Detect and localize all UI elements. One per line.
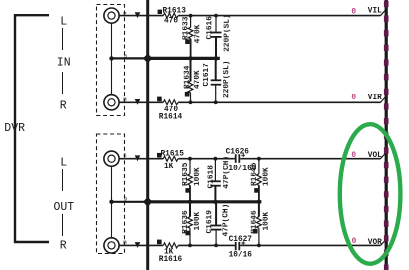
connector group box IN (dashed) xyxy=(97,5,125,116)
connector jack OUT L xyxy=(104,151,119,166)
svg-text:470K: 470K xyxy=(194,70,202,89)
ground bus OUT (y=201.8) xyxy=(112,201,149,203)
capacitor C1616 xyxy=(206,14,231,57)
svg-text:0: 0 xyxy=(352,238,357,246)
svg-text:47P(CH): 47P(CH) xyxy=(223,204,231,237)
svg-text:OUT: OUT xyxy=(54,201,75,214)
junction C1617 tap xyxy=(214,100,218,104)
svg-text:47P(CH): 47P(CH) xyxy=(223,156,231,189)
svg-text:R1616: R1616 xyxy=(159,256,183,264)
resistor R1616 xyxy=(157,240,183,264)
wire DVR bracket xyxy=(15,15,49,242)
capacitor C1619 xyxy=(206,203,230,246)
arrow marker OUT L xyxy=(135,155,141,161)
svg-text:220P(SL): 220P(SL) xyxy=(224,14,232,51)
resistor R1614 xyxy=(157,97,182,122)
junction bus crossing xyxy=(143,54,153,64)
connector group box OUT (dashed) xyxy=(97,134,125,254)
wire label tick xyxy=(62,28,64,50)
junction connector common IN xyxy=(109,56,113,60)
junction C1618 tap xyxy=(214,157,218,161)
svg-text:R1636: R1636 xyxy=(182,210,190,234)
svg-text:C1616: C1616 xyxy=(206,16,214,40)
svg-text:6: 6 xyxy=(123,152,126,159)
junction C1616 tap xyxy=(214,14,218,18)
svg-text:L: L xyxy=(60,15,67,28)
junction bus C1618 xyxy=(213,200,217,204)
svg-text:0: 0 xyxy=(351,152,356,160)
svg-text:10/16: 10/16 xyxy=(229,252,253,260)
capacitor C1618 xyxy=(208,156,232,201)
arrow marker OUT R xyxy=(135,242,141,248)
junction R1633 tap xyxy=(189,14,193,18)
annotation green ellipse xyxy=(340,124,401,264)
wire VOR row (y=245.4) xyxy=(119,244,163,246)
junction connector common OUT xyxy=(109,200,113,204)
wire label tick xyxy=(62,214,64,236)
ground bus IN (y=58.4) xyxy=(112,57,149,59)
svg-text:R1633: R1633 xyxy=(182,16,190,40)
connector jack IN L xyxy=(104,8,119,23)
svg-text:IN: IN xyxy=(57,57,71,70)
svg-text:100K: 100K xyxy=(263,167,271,186)
svg-text:C1619: C1619 xyxy=(206,210,214,234)
svg-text:0: 0 xyxy=(351,94,356,102)
junction bus R1633 xyxy=(188,56,192,60)
svg-text:C1627: C1627 xyxy=(229,236,253,244)
svg-text:5: 5 xyxy=(124,52,127,59)
resistor R1633 xyxy=(182,16,202,58)
capacitor C1627 (electrolytic, series) xyxy=(229,236,253,260)
junction R1635 tap xyxy=(188,157,192,161)
svg-text:L: L xyxy=(60,156,67,169)
resistor R1635 xyxy=(182,159,202,201)
svg-text:M: M xyxy=(123,239,126,246)
capacitor C1617 xyxy=(203,59,231,102)
svg-text:VOL: VOL xyxy=(368,152,382,160)
wire label tick xyxy=(62,72,64,94)
junction R1634 tap xyxy=(189,100,193,104)
junction R1645 tap xyxy=(257,157,261,161)
svg-text:0: 0 xyxy=(351,9,356,17)
svg-text:R1634: R1634 xyxy=(184,65,192,89)
resistor R1636 xyxy=(182,203,202,246)
svg-text:1K: 1K xyxy=(164,163,174,171)
svg-text:9: 9 xyxy=(124,195,127,202)
wire connector common IN xyxy=(111,23,113,95)
svg-text:R1614: R1614 xyxy=(159,114,183,122)
arrow marker IN R xyxy=(135,99,141,105)
resistor R1646 xyxy=(251,203,271,246)
resistor R1645 xyxy=(251,159,271,201)
svg-text:470: 470 xyxy=(164,18,178,26)
svg-text:R1613: R1613 xyxy=(163,8,187,16)
wire connector common OUT xyxy=(111,166,113,238)
svg-text:R: R xyxy=(60,99,67,112)
svg-text:100K: 100K xyxy=(194,211,202,230)
capacitor C1626 (electrolytic, series) xyxy=(226,148,257,173)
svg-text:C1626: C1626 xyxy=(226,148,250,156)
junction bus C1616 xyxy=(214,56,218,60)
svg-text:R: R xyxy=(60,239,67,252)
resistor R1634 xyxy=(184,59,202,102)
svg-text:DVR: DVR xyxy=(4,122,25,135)
svg-text:220P(SL): 220P(SL) xyxy=(223,61,231,98)
svg-text:VIR: VIR xyxy=(368,94,382,102)
wire VIR row (y=102.3) xyxy=(119,101,163,103)
junction bus R1635 xyxy=(188,200,192,204)
resistor R1613 xyxy=(158,8,187,26)
svg-text:R1615: R1615 xyxy=(161,150,185,158)
wire connector strip right xyxy=(385,0,388,270)
arrow marker IN L xyxy=(135,12,141,18)
connector jack OUT R xyxy=(104,238,119,253)
connector jack IN R xyxy=(104,95,119,110)
junction bus crossing xyxy=(143,197,153,207)
svg-text:R1646: R1646 xyxy=(251,210,259,234)
svg-text:C1618: C1618 xyxy=(208,165,216,189)
wire VOL row (y=158.7) xyxy=(119,158,163,160)
svg-text:C1617: C1617 xyxy=(203,63,211,87)
svg-text:M: M xyxy=(123,96,126,103)
wire label tick xyxy=(62,169,64,191)
svg-text:470K: 470K xyxy=(194,24,202,43)
resistor R1615 xyxy=(157,150,184,171)
wire VIL row (y=15.6) xyxy=(119,15,163,17)
junction R1646 tap xyxy=(257,244,261,248)
svg-text:100K: 100K xyxy=(263,211,271,230)
svg-text:R1635: R1635 xyxy=(182,162,190,186)
junction R1636 tap xyxy=(188,244,192,248)
svg-text:VOR: VOR xyxy=(368,239,382,247)
junction C1619 tap xyxy=(214,244,218,248)
connector strip pads (magenta) xyxy=(384,0,389,270)
wire bus vertical left xyxy=(146,0,149,270)
svg-text:R1645: R1645 xyxy=(251,162,259,186)
junction bus R1645 xyxy=(257,200,261,204)
svg-text:100K: 100K xyxy=(194,167,202,186)
svg-text:VIL: VIL xyxy=(368,8,382,16)
